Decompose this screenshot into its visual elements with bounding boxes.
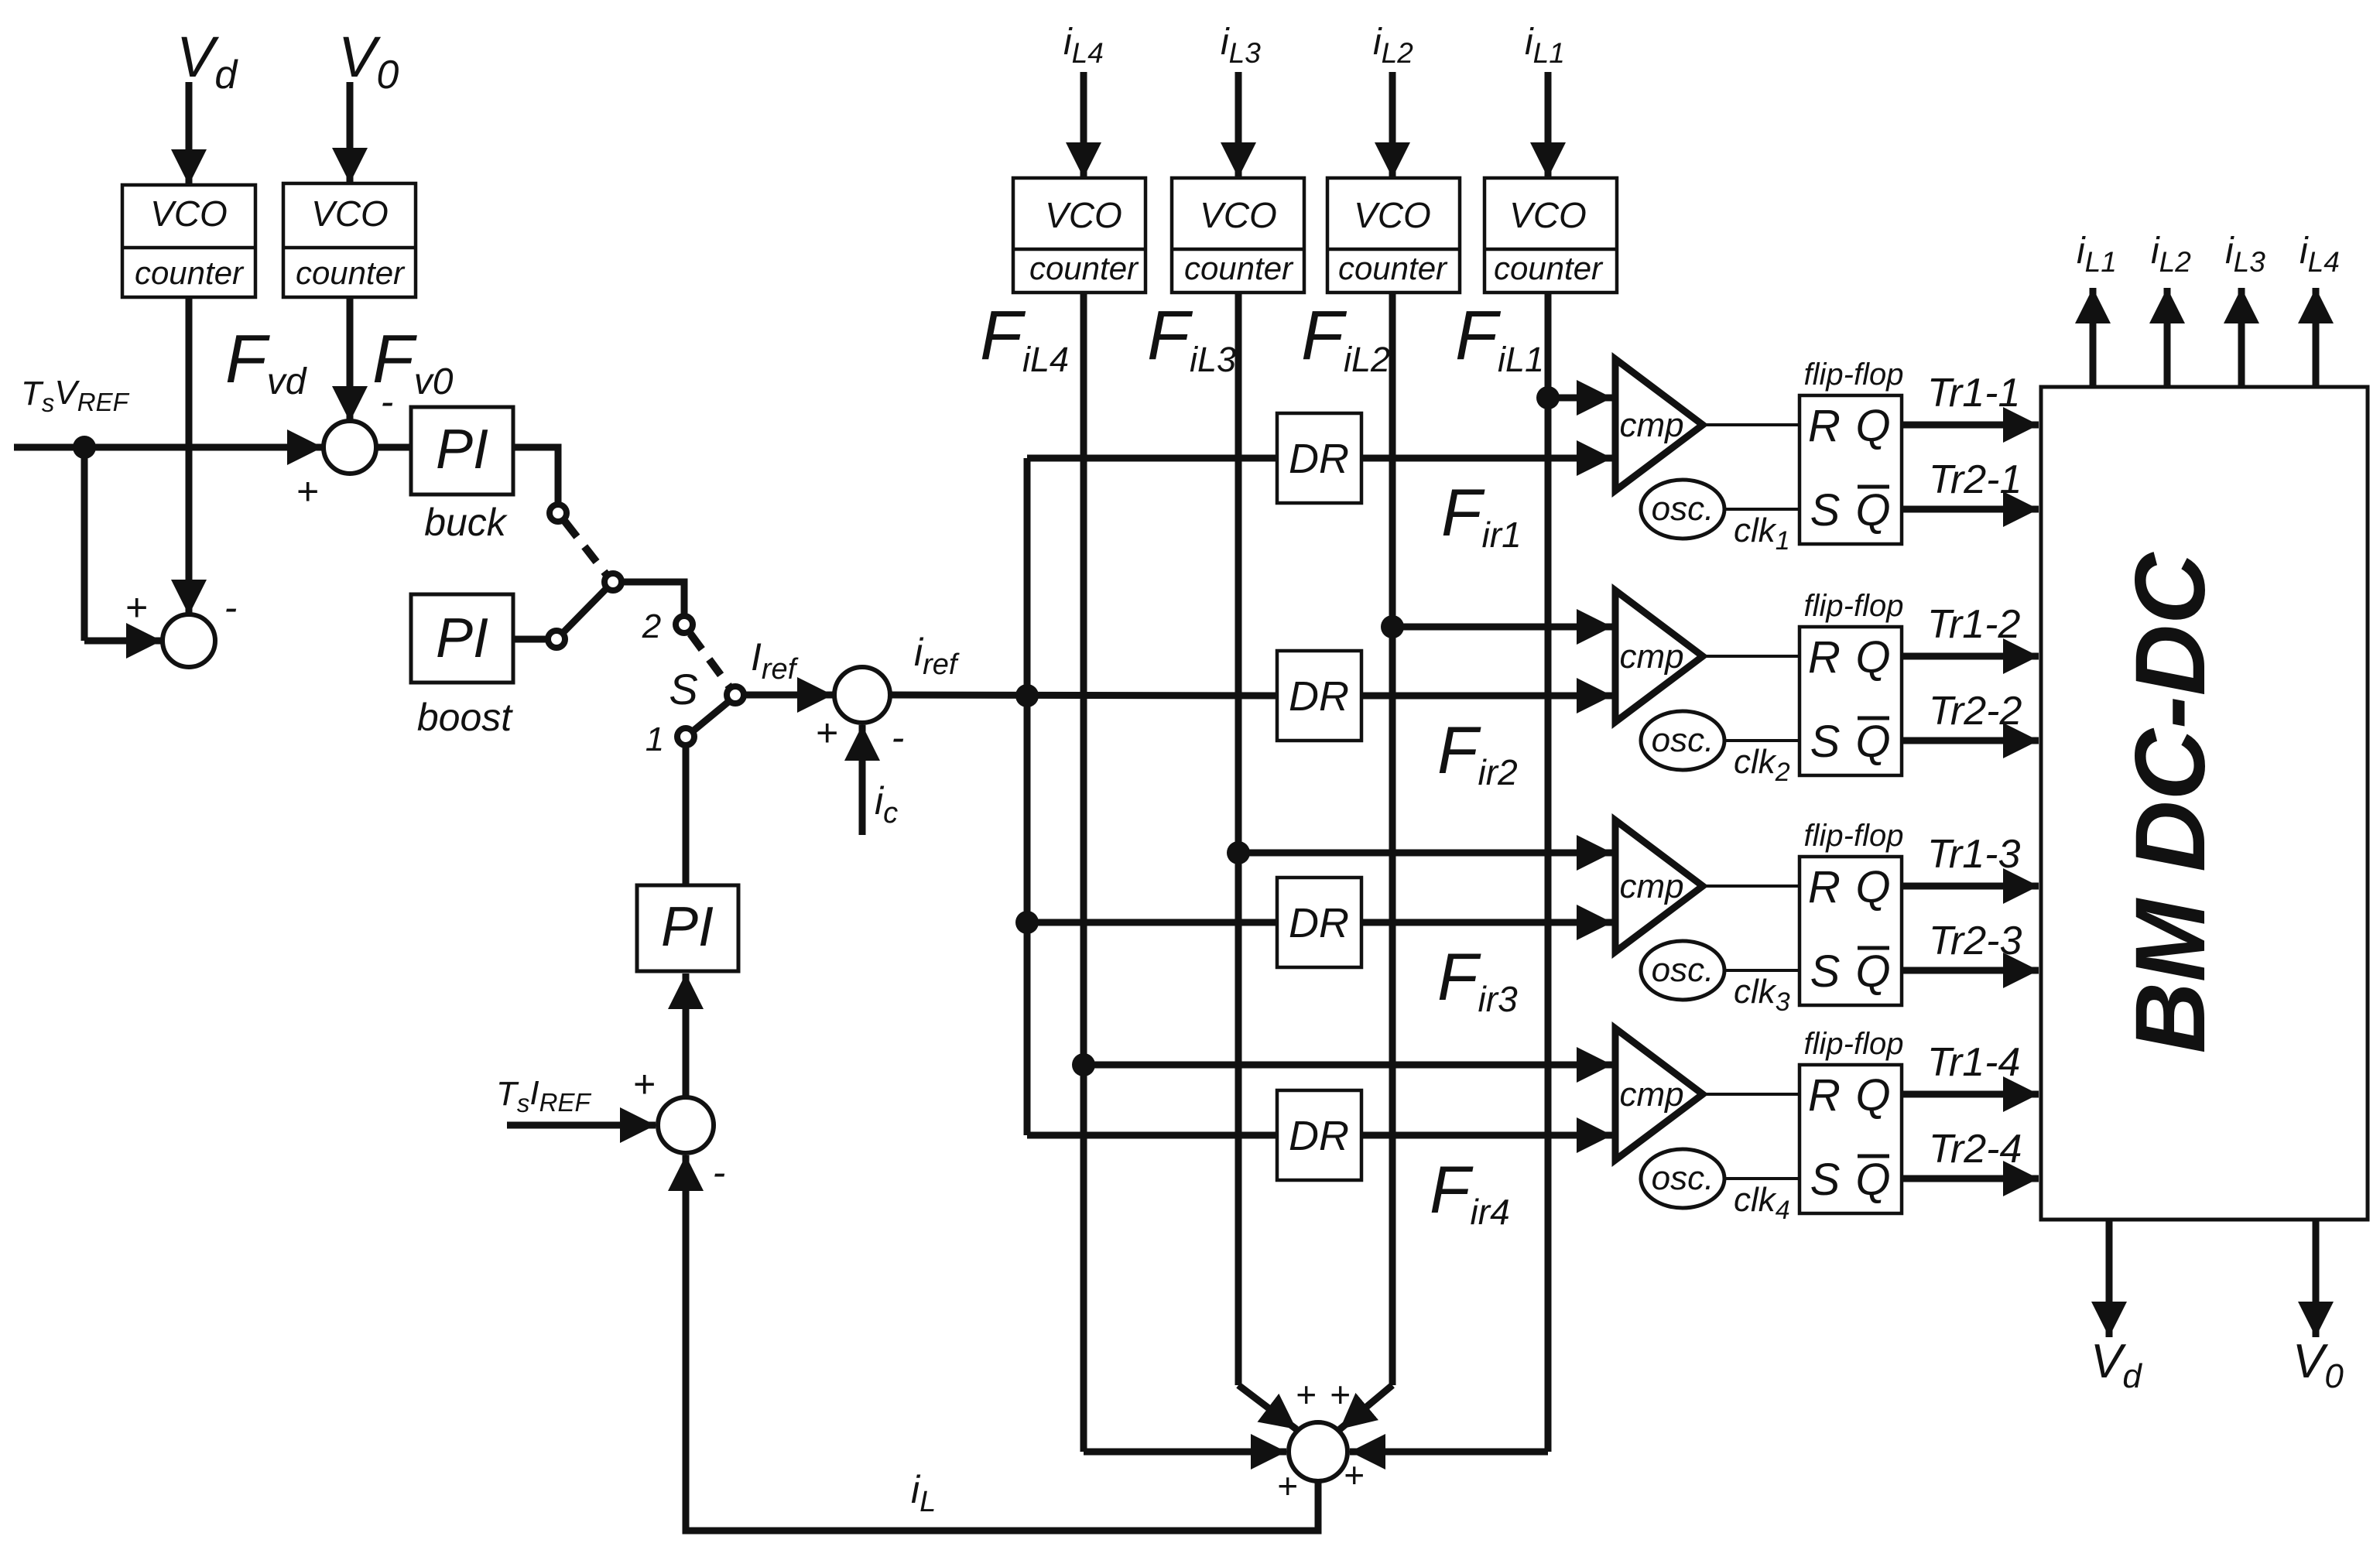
svg-text:VCO: VCO [311,193,389,234]
svg-text:boost: boost [417,696,513,739]
svg-text:counter: counter [1338,250,1448,286]
svg-text:VCO: VCO [150,193,228,234]
svg-text:R: R [1808,401,1841,451]
svg-text:flip-flop: flip-flop [1804,1027,1904,1061]
svg-text:osc.: osc. [1652,721,1714,759]
svg-text:cmp: cmp [1619,638,1683,676]
svg-text:buck: buck [424,501,509,544]
svg-text:+: + [1330,1374,1351,1415]
svg-text:cmp: cmp [1619,406,1683,444]
svg-text:-: - [713,1151,726,1194]
svg-text:Tr1-2: Tr1-2 [1927,602,2020,647]
svg-text:S: S [1810,717,1841,767]
svg-text:Tr2-2: Tr2-2 [1929,689,2022,734]
svg-text:counter: counter [135,255,245,291]
svg-text:Tr2-4: Tr2-4 [1929,1127,2022,1172]
svg-text:counter: counter [1029,250,1139,286]
svg-text:Tr1-4: Tr1-4 [1927,1040,2020,1085]
svg-text:1: 1 [646,720,664,758]
svg-text:+: + [632,1062,655,1106]
svg-text:-: - [892,716,905,759]
svg-text:Q: Q [1855,632,1890,683]
svg-text:Tr2-3: Tr2-3 [1929,919,2022,963]
svg-text:flip-flop: flip-flop [1804,358,1904,392]
svg-text:BM DC-DC: BM DC-DC [2115,552,2226,1054]
svg-text:R: R [1808,862,1841,912]
svg-text:S: S [669,665,697,713]
svg-text:counter: counter [296,255,406,291]
svg-text:cmp: cmp [1619,867,1683,905]
svg-text:R: R [1808,632,1841,683]
svg-text:VCO: VCO [1045,195,1122,235]
svg-text:osc.: osc. [1652,490,1714,528]
svg-text:PI: PI [661,896,714,958]
svg-text:DR: DR [1289,900,1349,946]
svg-text:flip-flop: flip-flop [1804,589,1904,623]
svg-text:cmp: cmp [1619,1076,1683,1114]
svg-text:+: + [1344,1455,1365,1495]
svg-text:DR: DR [1289,673,1349,720]
svg-text:Q: Q [1855,1155,1890,1205]
svg-text:Tr1-3: Tr1-3 [1927,832,2020,877]
svg-text:+: + [296,470,318,513]
svg-text:+: + [815,711,837,754]
svg-text:Tr2-1: Tr2-1 [1929,457,2022,502]
svg-text:Q: Q [1855,717,1890,767]
svg-text:+: + [125,586,147,629]
svg-text:PI: PI [436,607,488,669]
svg-text:Q: Q [1855,946,1890,997]
svg-text:VCO: VCO [1354,195,1431,235]
svg-text:-: - [381,380,394,423]
svg-text:Q: Q [1855,485,1890,535]
svg-text:DR: DR [1289,1113,1349,1159]
svg-text:Q: Q [1855,401,1890,451]
svg-text:+: + [1296,1374,1317,1415]
svg-text:+: + [1277,1466,1298,1506]
svg-text:Q: Q [1855,862,1890,912]
svg-text:S: S [1810,1155,1841,1205]
svg-text:R: R [1808,1070,1841,1121]
svg-text:flip-flop: flip-flop [1804,819,1904,853]
svg-text:Q: Q [1855,1070,1890,1121]
svg-text:osc.: osc. [1652,1159,1714,1197]
svg-text:counter: counter [1184,250,1294,286]
svg-text:VCO: VCO [1200,195,1277,235]
svg-text:PI: PI [436,419,488,481]
svg-text:counter: counter [1494,250,1604,286]
svg-text:Tr1-1: Tr1-1 [1927,371,2020,416]
svg-text:VCO: VCO [1509,195,1587,235]
svg-text:S: S [1810,946,1841,997]
svg-text:osc.: osc. [1652,951,1714,989]
svg-text:2: 2 [642,607,661,645]
svg-text:-: - [224,586,238,629]
svg-text:DR: DR [1289,436,1349,482]
svg-text:S: S [1810,485,1841,535]
